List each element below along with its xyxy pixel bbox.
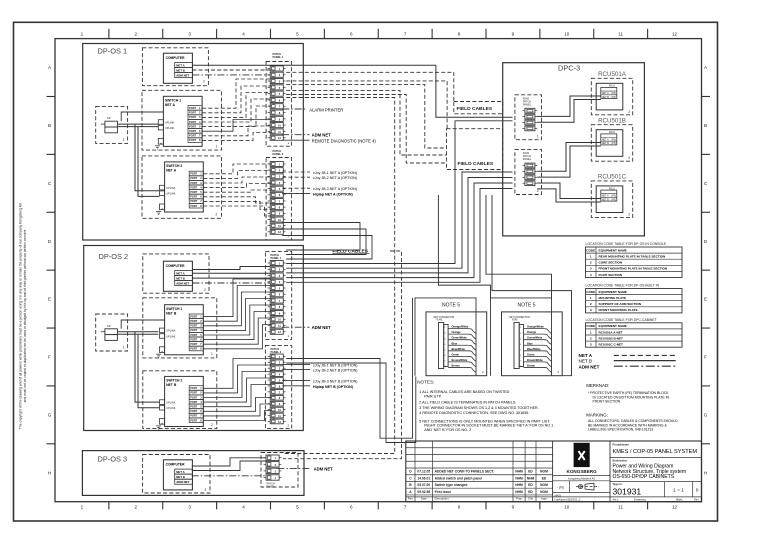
svg-text:PANEL 2: PANEL 2 bbox=[271, 350, 282, 354]
svg-text:6: 6 bbox=[350, 505, 353, 510]
svg-text:Prosjektnavn: Prosjektnavn bbox=[613, 443, 630, 447]
svg-text:09.02.98: 09.02.98 bbox=[417, 490, 430, 494]
svg-text:ALARM PRINTER: ALARM PRINTER bbox=[309, 108, 343, 113]
svg-text:H: H bbox=[704, 470, 707, 475]
svg-text:2: 2 bbox=[628, 156, 630, 160]
svg-text:0: 0 bbox=[696, 488, 699, 494]
svg-text:1: 1 bbox=[123, 346, 125, 350]
svg-text:PORT: PORT bbox=[189, 111, 197, 115]
svg-text:(P6): (P6) bbox=[611, 198, 616, 201]
svg-text:2: 2 bbox=[135, 505, 138, 510]
svg-text:RCU: RCU bbox=[609, 186, 615, 190]
svg-text:DP-OS 1: DP-OS 1 bbox=[98, 47, 128, 56]
svg-text:1: 1 bbox=[537, 134, 539, 138]
svg-text:8: 8 bbox=[458, 505, 461, 510]
svg-text:RJ45: RJ45 bbox=[512, 319, 518, 322]
svg-text:Beskrivelse: Beskrivelse bbox=[613, 459, 628, 463]
svg-text:NET A: NET A bbox=[579, 353, 593, 358]
svg-text:Blue/White: Blue/White bbox=[452, 347, 466, 351]
svg-text:CORE SECTION: CORE SECTION bbox=[599, 261, 623, 265]
svg-text:2: 2 bbox=[135, 31, 138, 36]
svg-text:1: 1 bbox=[216, 145, 218, 149]
svg-text:Switch type changed: Switch type changed bbox=[435, 483, 468, 487]
svg-text:NET B: NET B bbox=[602, 96, 609, 99]
svg-text:1: 1 bbox=[81, 31, 84, 36]
svg-text:cJoy JB-1 NET A (OPTION): cJoy JB-1 NET A (OPTION) bbox=[313, 171, 357, 175]
svg-text:PORT: PORT bbox=[190, 418, 198, 422]
svg-text:PORT: PORT bbox=[190, 347, 198, 351]
svg-text:PANEL 1: PANEL 1 bbox=[271, 256, 282, 260]
svg-text:NET B: NET B bbox=[176, 68, 185, 72]
svg-text:First issue: First issue bbox=[435, 490, 452, 494]
svg-text:Blue: Blue bbox=[527, 341, 533, 345]
svg-text:PORT: PORT bbox=[190, 333, 198, 337]
svg-text:PORT: PORT bbox=[190, 204, 198, 208]
svg-text:2: 2 bbox=[204, 288, 206, 292]
svg-text:2: 2 bbox=[628, 212, 630, 216]
svg-text:NET A: NET A bbox=[602, 195, 609, 198]
svg-text:UPLINK: UPLINK bbox=[166, 192, 176, 196]
svg-text:PORT: PORT bbox=[190, 328, 198, 332]
svg-text:PORT: PORT bbox=[190, 342, 198, 346]
svg-text:UPLINK: UPLINK bbox=[166, 406, 176, 410]
svg-text:NOTE 5: NOTE 5 bbox=[442, 302, 460, 308]
svg-text:1: 1 bbox=[590, 255, 592, 259]
svg-text:G: G bbox=[48, 412, 52, 417]
svg-text:SWITCH 1: SWITCH 1 bbox=[166, 307, 182, 311]
svg-text:1: 1 bbox=[211, 352, 213, 356]
svg-text:PORT: PORT bbox=[189, 134, 197, 138]
svg-text:PORT: PORT bbox=[189, 115, 197, 119]
svg-text:cJoy JB-1 NET B (OPTION): cJoy JB-1 NET B (OPTION) bbox=[313, 363, 357, 367]
svg-text:2: 2 bbox=[211, 423, 213, 427]
svg-text:(P6): (P6) bbox=[611, 139, 616, 142]
svg-text:PORT: PORT bbox=[190, 414, 198, 418]
svg-text:ADDED NET CONN TO PANELS SECT.: ADDED NET CONN TO PANELS SECT. bbox=[435, 470, 495, 474]
svg-text:PORT: PORT bbox=[189, 120, 197, 124]
svg-text:1 = 1: 1 = 1 bbox=[673, 488, 684, 494]
svg-text:12: 12 bbox=[672, 505, 678, 510]
svg-text:2: 2 bbox=[628, 110, 630, 114]
svg-text:Brown: Brown bbox=[452, 363, 460, 367]
svg-text:(P6): (P6) bbox=[611, 142, 616, 145]
svg-text:2: 2 bbox=[203, 80, 205, 84]
svg-text:NET A: NET A bbox=[176, 63, 185, 67]
svg-text:12: 12 bbox=[672, 31, 678, 36]
svg-text:ED: ED bbox=[528, 470, 533, 474]
svg-text:PORT: PORT bbox=[190, 400, 198, 404]
svg-text:PORT: PORT bbox=[190, 405, 198, 409]
svg-text:Hiplap NET A (OPTION): Hiplap NET A (OPTION) bbox=[313, 193, 353, 197]
svg-text:PORT: PORT bbox=[190, 185, 198, 189]
svg-text:LOCATION CODE TABLE FOR DP-OS: LOCATION CODE TABLE FOR DP-OS BUILT IN bbox=[586, 284, 660, 288]
svg-text:DPC-3: DPC-3 bbox=[558, 63, 580, 72]
svg-text:Orange/White: Orange/White bbox=[452, 325, 469, 329]
svg-text:NET B: NET B bbox=[166, 311, 177, 315]
svg-text:3: 3 bbox=[188, 505, 191, 510]
svg-text:Brown: Brown bbox=[527, 363, 535, 367]
svg-text:SWITCH 2: SWITCH 2 bbox=[166, 164, 182, 168]
svg-text:LOCATION CODE TABLE FOR DP-OS: LOCATION CODE TABLE FOR DP-OS IN CONSOLE bbox=[586, 242, 668, 246]
svg-text:PAIR UTP.: PAIR UTP. bbox=[424, 394, 441, 398]
svg-text:E: E bbox=[704, 297, 707, 302]
svg-text:NET B: NET B bbox=[176, 276, 185, 280]
svg-text:RCU501C C-NET: RCU501C C-NET bbox=[599, 343, 624, 347]
svg-text:UPLINK: UPLINK bbox=[166, 400, 176, 404]
svg-text:NET A: NET A bbox=[602, 139, 609, 142]
svg-text:9: 9 bbox=[512, 31, 515, 36]
svg-text:NET B: NET B bbox=[602, 198, 609, 201]
svg-text:FRONT SECTION.: FRONT SECTION. bbox=[593, 400, 622, 404]
svg-text:NOM: NOM bbox=[540, 490, 548, 494]
svg-text:CODE: CODE bbox=[586, 248, 595, 252]
svg-text:10: 10 bbox=[564, 31, 570, 36]
svg-text:OS-650-DP/DP CABINETS: OS-650-DP/DP CABINETS bbox=[613, 474, 675, 480]
svg-text:LABELLING SPECIFICATION, 048-1: LABELLING SPECIFICATION, 048-101213 bbox=[588, 428, 653, 432]
svg-text:7: 7 bbox=[404, 31, 407, 36]
svg-text:Brown/White: Brown/White bbox=[452, 358, 468, 362]
svg-text:The copyright of this drawing: The copyright of this drawing and of all… bbox=[19, 202, 23, 429]
svg-text:NET A: NET A bbox=[602, 92, 609, 95]
svg-text:cJoy JB-3 NET A (OPTION): cJoy JB-3 NET A (OPTION) bbox=[313, 187, 357, 191]
svg-text:PORT: PORT bbox=[190, 391, 198, 395]
svg-text:COMPUTER: COMPUTER bbox=[166, 56, 185, 60]
svg-text:2: 2 bbox=[590, 336, 592, 340]
svg-text:2: 2 bbox=[590, 261, 592, 265]
svg-text:CODE: CODE bbox=[586, 324, 595, 328]
svg-text:NHM: NHM bbox=[515, 470, 523, 474]
svg-text:ADM NET: ADM NET bbox=[579, 364, 600, 369]
svg-text:4: 4 bbox=[242, 505, 245, 510]
svg-text:PORT: PORT bbox=[189, 106, 197, 110]
svg-text:PORT: PORT bbox=[190, 395, 198, 399]
svg-text:B: B bbox=[704, 123, 707, 128]
svg-text:ADM NET: ADM NET bbox=[176, 282, 189, 286]
svg-text:1: 1 bbox=[590, 296, 592, 300]
svg-text:RCU501B B-NET: RCU501B B-NET bbox=[599, 336, 624, 340]
svg-text:cJoy JB-2 NET A (OPTION): cJoy JB-2 NET A (OPTION) bbox=[313, 176, 357, 180]
svg-text:EQUIPMENT NAME: EQUIPMENT NAME bbox=[599, 324, 627, 328]
svg-text:1: 1 bbox=[123, 138, 125, 142]
svg-text:2: 2 bbox=[537, 189, 539, 193]
svg-text:1: 1 bbox=[590, 330, 592, 334]
svg-text:F: F bbox=[704, 355, 707, 360]
svg-text:PORT: PORT bbox=[190, 337, 198, 341]
svg-text:PANEL: PANEL bbox=[523, 102, 532, 106]
svg-text:2: 2 bbox=[590, 302, 592, 306]
svg-text:UPLINK: UPLINK bbox=[165, 120, 175, 124]
svg-text:Brown/White: Brown/White bbox=[527, 358, 543, 362]
svg-text:2: 2 bbox=[216, 213, 218, 217]
svg-text:4: 4 bbox=[242, 31, 245, 36]
svg-text:PANEL 2: PANEL 2 bbox=[273, 152, 284, 156]
svg-text:Rev.: Rev. bbox=[694, 497, 699, 501]
svg-text:MOUNTING PLATE: MOUNTING PLATE bbox=[599, 296, 627, 300]
svg-text:NET A: NET A bbox=[166, 169, 177, 173]
svg-text:1: 1 bbox=[81, 505, 84, 510]
svg-text:UPLINK: UPLINK bbox=[166, 334, 176, 338]
svg-text:RCU501B: RCU501B bbox=[598, 118, 626, 125]
svg-text:11: 11 bbox=[618, 31, 623, 36]
svg-text:ADM NET: ADM NET bbox=[312, 133, 332, 138]
svg-text:FRONT MOUNTING PLATE: FRONT MOUNTING PLATE bbox=[599, 308, 638, 312]
svg-text:Hiplap NET B (OPTION): Hiplap NET B (OPTION) bbox=[313, 385, 354, 389]
svg-text:Malst.: Malst. bbox=[676, 497, 683, 501]
svg-text:NOM: NOM bbox=[540, 483, 548, 487]
svg-text:3: 3 bbox=[188, 31, 191, 36]
svg-text:B: B bbox=[48, 123, 51, 128]
svg-text:PORT: PORT bbox=[190, 190, 198, 194]
svg-text:REMOTE DIAGNOSTIC (NOTE 4): REMOTE DIAGNOSTIC (NOTE 4) bbox=[312, 139, 377, 144]
svg-text:Orange/White: Orange/White bbox=[527, 325, 544, 329]
svg-text:CODE: CODE bbox=[586, 290, 595, 294]
svg-text:301931: 301931 bbox=[613, 486, 642, 496]
svg-text:5: 5 bbox=[296, 31, 299, 36]
svg-text:SWITCH 1: SWITCH 1 bbox=[165, 99, 181, 103]
svg-text:G: G bbox=[704, 412, 708, 417]
svg-text:UPLINK: UPLINK bbox=[166, 329, 176, 333]
svg-text:(P6): (P6) bbox=[611, 92, 616, 95]
svg-text:Green/White: Green/White bbox=[527, 336, 543, 340]
svg-text:SWITCH 2: SWITCH 2 bbox=[166, 379, 182, 383]
svg-text:NET B: NET B bbox=[579, 358, 592, 363]
svg-text:PORT: PORT bbox=[189, 124, 197, 128]
svg-text:NHM: NHM bbox=[515, 483, 523, 487]
svg-text:Green: Green bbox=[452, 352, 460, 356]
svg-text:AP: AP bbox=[107, 116, 111, 120]
svg-text:Added switch and patch panel: Added switch and patch panel bbox=[435, 476, 483, 480]
svg-text:NOTES:: NOTES: bbox=[417, 380, 434, 385]
svg-text:UPLINK: UPLINK bbox=[166, 186, 176, 190]
svg-text:5: 5 bbox=[296, 505, 299, 510]
svg-text:NET B: NET B bbox=[166, 383, 177, 387]
svg-text:I:\ark\pan\301931_1: I:\ark\pan\301931_1 bbox=[554, 498, 581, 502]
svg-text:PORT: PORT bbox=[190, 314, 198, 318]
svg-text:cJoy JB-3 NET B (OPTION): cJoy JB-3 NET B (OPTION) bbox=[313, 380, 357, 384]
svg-text:(P6): (P6) bbox=[611, 96, 616, 99]
svg-text:Green: Green bbox=[527, 352, 535, 356]
svg-text:3: 3 bbox=[590, 267, 592, 271]
svg-text:MARKING:: MARKING: bbox=[586, 412, 608, 417]
svg-text:AND 'NET B' FOR OS NO. 2: AND 'NET B' FOR OS NO. 2 bbox=[424, 428, 471, 432]
svg-text:PANEL: PANEL bbox=[267, 485, 276, 489]
svg-text:NET B: NET B bbox=[602, 142, 609, 145]
svg-text:SUPPORT OF ARM SECTION: SUPPORT OF ARM SECTION bbox=[599, 302, 642, 306]
svg-text:cJoy JB-2 NET B (OPTION): cJoy JB-2 NET B (OPTION) bbox=[313, 369, 357, 373]
svg-text:KONGSBERG: KONGSBERG bbox=[567, 469, 598, 474]
svg-text:EQUIPMENT NAME: EQUIPMENT NAME bbox=[599, 290, 627, 294]
svg-text:2: 2 bbox=[205, 488, 207, 492]
svg-text:E: E bbox=[48, 297, 51, 302]
svg-text:Kongsberg Maritime AS: Kongsberg Maritime AS bbox=[568, 476, 596, 480]
svg-text:FIELD CABLES: FIELD CABLES bbox=[457, 106, 493, 112]
svg-text:- (N): - (N) bbox=[557, 485, 564, 489]
svg-text:NHM: NHM bbox=[515, 476, 523, 480]
svg-text:9: 9 bbox=[512, 505, 515, 510]
svg-text:7: 7 bbox=[404, 505, 407, 510]
svg-text:NHM: NHM bbox=[515, 490, 523, 494]
svg-text:NOTE 5: NOTE 5 bbox=[517, 302, 535, 308]
svg-text:PORT: PORT bbox=[190, 319, 198, 323]
svg-text:DP-OS 3: DP-OS 3 bbox=[98, 455, 128, 464]
svg-text:Ark 1: Ark 1 bbox=[613, 497, 620, 501]
svg-text:NET A: NET A bbox=[165, 103, 176, 107]
svg-text:RCU: RCU bbox=[609, 84, 615, 88]
svg-text:MERKNAD:: MERKNAD: bbox=[586, 383, 609, 388]
svg-text:6: 6 bbox=[350, 31, 353, 36]
svg-text:REAR MOUNTING PLATE IN TABLE S: REAR MOUNTING PLATE IN TABLE SECTION bbox=[599, 255, 667, 259]
svg-text:ED: ED bbox=[528, 490, 533, 494]
svg-text:NET B: NET B bbox=[176, 475, 185, 479]
svg-text:PANEL 1: PANEL 1 bbox=[273, 55, 284, 59]
svg-text:4 REMOTE DIAGNOSTIC CONNECTIO: 4 REMOTE DIAGNOSTIC CONNECTION, SEE DWG … bbox=[419, 411, 529, 415]
svg-text:14.06.01: 14.06.01 bbox=[417, 476, 430, 480]
svg-text:PORT: PORT bbox=[190, 176, 198, 180]
svg-text:07.12.05: 07.12.05 bbox=[417, 470, 430, 474]
svg-text:3: 3 bbox=[590, 308, 592, 312]
svg-text:FRONT MOUNTING PLATE IN TABLE: FRONT MOUNTING PLATE IN TABLE SECTION bbox=[599, 267, 668, 271]
svg-text:Green/White: Green/White bbox=[452, 336, 468, 340]
svg-text:PORT: PORT bbox=[190, 386, 198, 390]
svg-text:ED: ED bbox=[542, 476, 547, 480]
svg-text:PORT: PORT bbox=[190, 181, 198, 185]
svg-text:DP-OS 2: DP-OS 2 bbox=[99, 252, 129, 261]
svg-text:NET A: NET A bbox=[176, 470, 185, 474]
svg-text:11: 11 bbox=[618, 505, 623, 510]
svg-text:ED: ED bbox=[528, 483, 533, 487]
svg-text:PORT: PORT bbox=[189, 129, 197, 133]
svg-text:PORT: PORT bbox=[190, 199, 198, 203]
svg-text:COMPUTER: COMPUTER bbox=[166, 463, 185, 467]
svg-text:and must not be copied or dupl: and must not be copied or duplicated nor… bbox=[23, 230, 27, 403]
svg-text:PORT: PORT bbox=[190, 195, 198, 199]
svg-text:RCU501A: RCU501A bbox=[598, 71, 627, 78]
svg-text:ADM NET: ADM NET bbox=[176, 74, 189, 78]
svg-text:4: 4 bbox=[590, 273, 592, 277]
svg-text:3 THE WIRING DIAGRAM SHOWS OS: 3 THE WIRING DIAGRAM SHOWS OS 1,2 & 3 MO… bbox=[419, 406, 538, 410]
svg-text:Orange: Orange bbox=[452, 330, 462, 334]
svg-text:H: H bbox=[48, 470, 51, 475]
svg-text:UPLINK: UPLINK bbox=[165, 126, 175, 130]
svg-text:F: F bbox=[48, 355, 51, 360]
svg-text:NET A: NET A bbox=[176, 271, 185, 275]
svg-text:ADM NET: ADM NET bbox=[176, 480, 189, 484]
svg-text:ADM NET: ADM NET bbox=[312, 325, 332, 330]
svg-text:3: 3 bbox=[590, 343, 592, 347]
svg-text:Orange: Orange bbox=[527, 330, 537, 334]
svg-text:ADM NET: ADM NET bbox=[314, 467, 334, 472]
svg-text:NOM: NOM bbox=[540, 470, 548, 474]
svg-text:8: 8 bbox=[458, 31, 461, 36]
svg-text:Blue: Blue bbox=[452, 341, 458, 345]
svg-text:10: 10 bbox=[564, 505, 570, 510]
svg-text:PORT: PORT bbox=[190, 409, 198, 413]
svg-text:RCU501A A-NET: RCU501A A-NET bbox=[599, 330, 623, 334]
svg-text:NHM: NHM bbox=[527, 476, 535, 480]
svg-text:(P6): (P6) bbox=[611, 195, 616, 198]
svg-text:KMES / COP-05 PANEL SYSTEM: KMES / COP-05 PANEL SYSTEM bbox=[613, 449, 698, 455]
svg-text:PORT: PORT bbox=[190, 324, 198, 328]
svg-text:2 ALL FIELD CABLE IS TERMINAT: 2 ALL FIELD CABLE IS TERMINATED IN PATCH… bbox=[419, 400, 516, 404]
svg-text:Erstatning: Erstatning bbox=[634, 497, 646, 501]
svg-text:LOCATION CODE TABLE FOR DPC-CA: LOCATION CODE TABLE FOR DPC-CABINET bbox=[586, 318, 657, 322]
svg-text:EQUIPMENT NAME: EQUIPMENT NAME bbox=[599, 248, 627, 252]
svg-text:PORT: PORT bbox=[189, 138, 197, 142]
svg-text:Blue/White: Blue/White bbox=[527, 347, 541, 351]
svg-text:RJ45: RJ45 bbox=[437, 319, 443, 322]
svg-text:RCU501C: RCU501C bbox=[598, 174, 627, 181]
svg-text:COMPUTER: COMPUTER bbox=[166, 264, 185, 268]
svg-text:FIELD CABLES: FIELD CABLES bbox=[458, 161, 494, 167]
svg-text:AP: AP bbox=[107, 324, 111, 328]
svg-text:05.07.00: 05.07.00 bbox=[417, 483, 430, 487]
svg-text:PLINT SECTION: PLINT SECTION bbox=[599, 273, 623, 277]
svg-text:PANEL: PANEL bbox=[523, 157, 532, 161]
svg-text:PORT: PORT bbox=[190, 172, 198, 176]
